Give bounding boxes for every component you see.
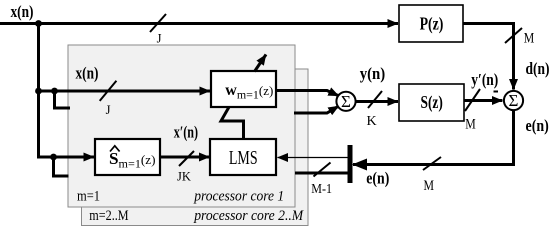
svg-text:y′(n): y′(n) [471,70,498,89]
svg-text:e(n): e(n) [366,169,389,188]
svg-text:y(n): y(n) [360,64,386,83]
svg-text:Σ: Σ [341,92,351,111]
svg-text:M: M [424,178,435,194]
svg-text:M-1: M-1 [311,181,332,196]
svg-text:J: J [106,103,111,117]
svg-text:M: M [465,117,476,133]
svg-text:Σ: Σ [509,91,519,110]
svg-text:P(z): P(z) [420,14,444,35]
svg-text:e(n): e(n) [526,116,549,135]
svg-text:S(z): S(z) [421,92,443,113]
svg-text:processor core 1: processor core 1 [193,189,284,205]
svg-text:M: M [524,31,535,47]
svg-text:x(n): x(n) [76,64,99,83]
svg-text:x(n): x(n) [11,2,34,21]
svg-text:x′(n): x′(n) [174,122,198,141]
svg-text:JK: JK [177,170,191,184]
svg-text:J: J [157,32,162,46]
svg-text:m=1: m=1 [77,188,100,204]
svg-text:m=2..M: m=2..M [89,208,128,224]
svg-text:K: K [366,114,376,129]
svg-text:LMS: LMS [229,147,258,169]
svg-text:processor core 2..M: processor core 2..M [193,208,304,224]
svg-text:d(n): d(n) [526,59,550,78]
